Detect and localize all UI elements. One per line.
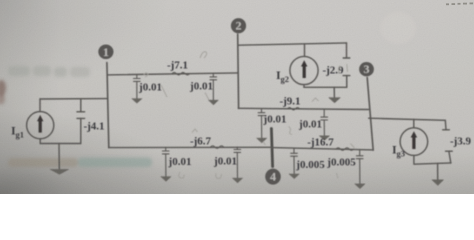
ground	[209, 100, 219, 105]
inductor squiggle line 2-3	[288, 107, 300, 110]
gen1 source stub top	[39, 99, 41, 112]
shunt cap line2-3 right	[319, 109, 329, 140]
gen1 top wire	[40, 98, 107, 100]
gen1 source stub bottom	[39, 139, 41, 144]
ground gen1	[58, 144, 60, 170]
bus 1	[107, 63, 109, 148]
bus marker 3	[359, 62, 374, 76]
ground	[319, 136, 329, 141]
arrow Ig3	[412, 137, 415, 149]
arrow Ig1	[39, 121, 42, 133]
source arrows	[37, 60, 417, 149]
ground	[355, 184, 365, 189]
inductor squiggle line 1-2	[172, 72, 190, 75]
inductor squiggle line 1-4	[211, 146, 224, 149]
wire line 1-2	[108, 73, 239, 75]
current source Ig3	[400, 128, 428, 156]
gen2 source stub top	[304, 44, 306, 56]
shunt cap line1-4 left	[161, 147, 171, 181]
bus 4	[271, 129, 272, 167]
arrow Ig2	[303, 66, 306, 78]
shunt cap line4-3 right	[355, 150, 365, 189]
shunt cap line2-3 left	[257, 109, 267, 143]
shunt cap line4-3 left	[289, 148, 299, 179]
wire line 2-3	[238, 108, 368, 109]
shunt cap line1-2 right	[209, 73, 219, 105]
ground	[233, 178, 243, 183]
admittance -j4.1 element	[80, 99, 82, 112]
ground	[132, 99, 142, 104]
current source Ig2	[290, 56, 318, 84]
admittance -j2.9 element	[346, 43, 348, 58]
bus marker 2	[231, 18, 246, 33]
pencil marks (annotations)	[144, 52, 355, 179]
gen3 top wire	[369, 118, 446, 120]
gen2 top wire	[238, 43, 346, 45]
ground	[257, 138, 267, 143]
gen3 source stub top	[413, 120, 415, 128]
gen1 bottom wire	[40, 143, 81, 145]
ground gen3	[437, 163, 439, 180]
bus 3	[367, 78, 373, 151]
tiny page-header text top right	[446, 3, 473, 6]
inductor squiggle line 4-3	[336, 148, 354, 151]
current source Ig1	[27, 112, 54, 139]
bus marker 4	[265, 169, 281, 185]
ground	[289, 174, 299, 179]
bleed-through smudge left edge	[0, 12, 416, 167]
ground gen2	[333, 87, 335, 98]
bus marker 1	[98, 45, 113, 60]
shunt cap line1-4 right	[233, 147, 243, 183]
gen2 source stub bottom	[303, 85, 305, 88]
ground	[161, 177, 171, 182]
gen2 bottom wire	[304, 86, 347, 88]
gen3 source stub bottom	[413, 155, 415, 163]
admittance -j3.9 element	[444, 120, 447, 129]
gen3 bottom wire	[414, 163, 451, 164]
bus 2	[237, 34, 240, 108]
shunt cap line1-2 left	[132, 74, 142, 103]
wire line 4-3	[272, 148, 373, 150]
wire line 1-4	[109, 146, 272, 148]
